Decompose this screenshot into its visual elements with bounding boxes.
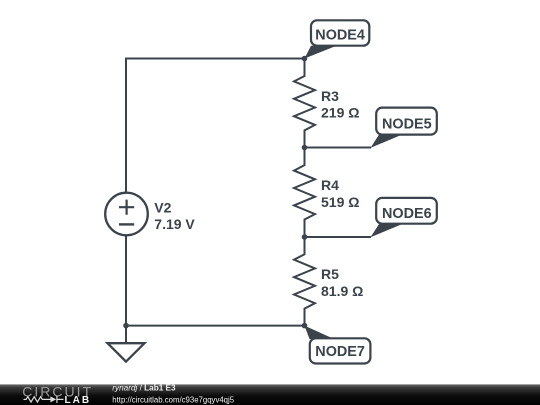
label R5: [321, 266, 339, 282]
wire NODE6 stub: [305, 236, 372, 238]
V2 plus sign: [119, 200, 134, 215]
svg-text:NODE6: NODE6: [382, 206, 432, 222]
svg-text:NODE5: NODE5: [382, 117, 432, 133]
label V2: [154, 199, 171, 215]
node NODE5 flag: [371, 108, 437, 148]
wire top horizontal from source to NODE4: [126, 58, 305, 60]
ground: [108, 326, 145, 362]
V2 minus sign: [119, 223, 134, 225]
svg-text:NODE7: NODE7: [315, 344, 365, 360]
svg-text:R5: R5: [321, 266, 339, 282]
junction node NODE6 dot: [302, 234, 308, 240]
value 219 ohm: [321, 105, 359, 121]
junction node NODE7 dot: [302, 323, 308, 329]
junction node NODE5 dot: [302, 145, 308, 151]
svg-text:LAB: LAB: [65, 395, 92, 405]
svg-text:V2: V2: [154, 199, 171, 215]
value 519 ohm: [321, 194, 359, 210]
resistor R3: [294, 59, 315, 148]
CircuitLab logo resistor zigzag and diode glyph: [24, 396, 64, 403]
svg-text:R4: R4: [321, 177, 339, 193]
svg-text:519 Ω: 519 Ω: [321, 194, 359, 210]
node NODE4 flag: [305, 20, 370, 58]
label R3: [321, 88, 339, 104]
CircuitLab logo LAB: [65, 395, 92, 405]
wire NODE5 stub: [305, 147, 372, 149]
footer bar: [0, 384, 540, 405]
junction dot at ground: [123, 323, 129, 329]
svg-text:rynardj / Lab1 E3: rynardj / Lab1 E3: [112, 384, 176, 393]
node NODE7 flag: [305, 326, 371, 364]
svg-text:NODE4: NODE4: [315, 27, 365, 43]
svg-text:http://circuitlab.com/c93e7gqy: http://circuitlab.com/c93e7gqyv4qj5: [112, 395, 234, 404]
CircuitLab logo wordmark CIRCUIT: [22, 383, 93, 399]
junction node NODE4 dot: [302, 56, 308, 62]
wire bottom horizontal: [126, 325, 305, 327]
svg-text:219 Ω: 219 Ω: [321, 105, 359, 121]
resistor R4: [294, 148, 315, 238]
wire left vertical from top wire to V2: [125, 58, 127, 193]
footer title rynardj / Lab1 E3: [112, 384, 234, 405]
wire left vertical from V2 to bottom wire: [125, 235, 127, 325]
voltage source V2: [105, 193, 148, 236]
label R4: [321, 177, 339, 193]
svg-text:81.9 Ω: 81.9 Ω: [321, 283, 363, 299]
value 81.9 ohm: [321, 283, 363, 299]
svg-text:7.19 V: 7.19 V: [154, 216, 195, 232]
svg-text:R3: R3: [321, 88, 339, 104]
node NODE6 flag: [371, 198, 437, 237]
resistor R5: [294, 237, 315, 326]
value 7.19 V: [154, 216, 195, 232]
